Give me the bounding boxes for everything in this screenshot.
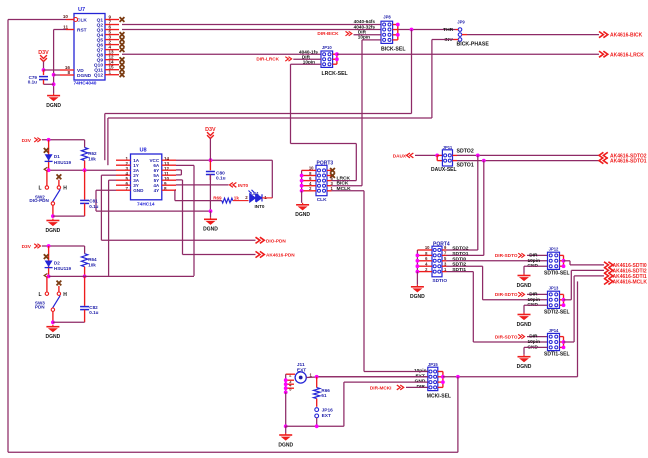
junction DAUX [435,154,439,158]
power D3V (U8) [205,127,216,138]
wire JP13 output to chevron [571,269,604,271]
wire U8 3A in [109,179,116,181]
net label DIR-SDTO (input JP12) [495,253,525,258]
header JP11 DAUX-SEL [442,150,452,166]
ground DGND (SW2) [46,219,61,234]
net label DIR-SDTO (input JP14) [495,334,525,339]
PORT4 right pin numbers [444,245,447,272]
JP9 labels [443,19,489,47]
wire DIR-MCKI to JP15 [406,386,428,388]
wire 6Y-5A loop [180,170,182,175]
connector J11 EXT [295,362,306,383]
wire U8 5Y out [176,179,183,181]
power D3V (U7) [38,50,49,61]
wire JP12 output to chevron [570,264,604,266]
junction J11 shield low [284,390,288,394]
wire J11 shield to ground net [285,392,287,426]
svg-text:GND: GND [133,188,144,193]
svg-text:J11: J11 [297,362,305,368]
wire MCLK trunk to JP15 10pin [364,371,428,373]
LED LE1 INT0 [249,190,273,209]
junction PORT3 bus [300,179,304,183]
JP12 labels [544,247,570,277]
JP14 labels [544,328,570,358]
wire SDTO2 down to PORT4 [477,155,479,250]
svg-text:U7: U7 [78,7,85,13]
JP11 labels [431,145,474,173]
ground DGND (U7) [46,94,61,109]
svg-text:HSU119: HSU119 [54,160,72,165]
header PORT3 [316,165,327,195]
wire JP12 GND drop [523,266,525,273]
net label DIR-SDTO (input JP13) [495,292,525,297]
ground DGND (U8) [203,217,218,232]
svg-text:JP8: JP8 [383,15,391,20]
JP13 right stubs and bus [560,294,564,305]
svg-text:D3V: D3V [22,138,32,144]
wire ground chain vertical [343,382,345,426]
wire LED anode drop [271,160,273,198]
wire C79 to ground node [44,83,54,85]
svg-text:HSU119: HSU119 [54,266,72,271]
svg-text:SDTO2: SDTO2 [457,148,474,154]
junction SW3 node b [83,275,87,279]
wire J11 EXT to JP15 [317,376,428,378]
JP12 row labels DIR 10pin GND [527,252,540,269]
IC U7 74HC4040 body [74,7,106,87]
wire JP14 GND row [524,346,548,348]
svg-text:RST: RST [77,28,87,34]
U7 pin names [77,17,103,79]
wire U8 VCC rail [176,159,272,161]
jumper JP16 EXT [315,408,333,419]
svg-text:AK4616-MCLK: AK4616-MCLK [613,279,648,285]
wire 2Y vertical to DIO-PDN [100,175,102,240]
switch SW3 PDN [35,276,67,322]
header JP13 SDTI2-SEL [548,291,560,308]
junction SDTO1 tap [482,159,486,163]
svg-text:R69: R69 [213,196,222,201]
wire U8 6A in [176,164,194,166]
JP14 right stubs and bus [560,337,564,348]
junction JP15 out a [441,375,445,379]
net label D3V (SW3) [22,244,41,250]
svg-text:DGND: DGND [46,334,61,340]
JP13 row labels DIR 10pin GND [527,291,540,308]
svg-text:PORT3: PORT3 [317,161,334,167]
jumper JP9 BICK-PHASE pins [458,28,462,42]
wire D3V down to VCC node [209,139,211,161]
wire to DGND (J11) [285,426,287,433]
wire 4040-1fs (U7 Q8 to JP10) [122,53,321,55]
svg-text:D1: D1 [54,154,60,159]
svg-text:10pin: 10pin [527,339,540,345]
wire SDTI1 vertical [472,272,474,342]
svg-text:10k: 10k [88,156,96,161]
wire JP12 output [564,260,571,262]
junction PORT4 bus [416,270,420,274]
wire AK4616-PDN output [183,254,256,256]
svg-text:DGND: DGND [517,364,532,370]
svg-text:LRCK-SEL: LRCK-SEL [322,71,349,77]
capacitor C82 0.1u [80,276,99,322]
U7 left pin numbers 10 11 16 8 [63,14,71,75]
wire DIR-LRCK to JP10 [293,58,321,60]
U8 pin numbers [125,156,169,191]
diode D2 HSU119 [44,246,72,278]
svg-text:DGND: DGND [77,73,92,79]
svg-text:MCKI-SEL: MCKI-SEL [427,394,451,400]
svg-text:INT0: INT0 [255,204,265,209]
wire U8 GND vertical [95,190,97,211]
JP13 labels [544,286,570,316]
svg-text:10pin: 10pin [527,297,540,303]
svg-text:1k: 1k [234,196,240,201]
wire SW2 to U8 2A [49,169,116,171]
wire PORT4 SDTO2 row [447,249,478,251]
junction ground rail [209,209,213,213]
wire SDTI1 to JP14 [473,341,547,343]
header JP8 BICK-SEL [381,21,393,43]
svg-text:L: L [38,186,41,192]
junction D3V (SW2) [47,138,51,142]
wire PORT4 SDTI0 to JP12 [447,260,548,262]
wire INV to JP9 [432,39,454,41]
wire MCKI loop down [457,377,459,453]
JP15 row labels 10pin EXT GND DIR [414,368,427,390]
U7 right pin stubs [105,20,119,75]
junction PORT3 bus [300,184,304,188]
svg-text:DAUX: DAUX [393,153,407,158]
junction JP12 out b [562,264,566,268]
wire left vertical trunk (MCKI loop) [7,20,9,453]
junction VCC/D3V [209,158,213,162]
svg-text:0.1u: 0.1u [89,310,98,315]
U7 CLK input bubble [74,18,78,22]
wire JP13 output vertical [570,270,572,299]
JP10 labels [322,45,349,77]
wire PORT4 SDTI2 row [447,265,483,267]
ground DGND (JP12) [517,274,532,289]
wire DAUX to JP11 [415,154,437,156]
svg-text:DGND: DGND [295,212,310,218]
wire BICK to U8 1A (line1) [105,113,412,115]
net label DIR-BICK [317,31,351,36]
net label DAUX (input) [393,153,414,158]
net label DIR-MCKI (input) [370,385,404,390]
wire SDTI2 vertical [482,266,484,300]
wire JP13 GND row [524,304,548,306]
svg-text:10k: 10k [88,263,96,268]
svg-text:THR: THR [443,27,454,33]
wire to U7 VD pin [44,69,61,71]
wire 6Y out [176,169,181,171]
junction JP8 bus a [396,23,400,27]
wire SW3 ground link [53,321,85,323]
no-connect PORT3 pin9 [330,168,335,173]
wire DIR-SDTO to JP13 [527,293,548,295]
JP15 right stubs and bus [438,372,443,388]
junction JP10 bus a [335,52,339,56]
wire U7 CLK to left trunk [8,19,66,21]
svg-text:DIO-PDN: DIO-PDN [266,238,286,243]
wire LRCK down to PORT3 [355,144,357,181]
switch SW2 DIO-PDN [29,170,67,216]
wire JP12 output vertical [569,261,571,265]
wire PORT3 BICK to trunk [332,185,363,187]
wire LRCK 10pin vertical [290,64,292,143]
JP14 row labels DIR 10pin GND [527,334,540,351]
net label DIO-PDN (output) [256,237,287,243]
svg-text:CLK: CLK [317,197,327,203]
junction PORT3 bus [300,174,304,178]
wire D3V rail (SW3) [42,245,85,247]
wire 4040-64fs (U7 Q2 to JP8) [122,24,381,26]
wire 4Y drop to R69 [174,190,176,201]
svg-text:DGND: DGND [203,227,218,233]
PORT4 left stubs and bus [417,250,432,272]
JP10 right stubs and bus [333,54,337,64]
U7 left pin stubs [60,20,74,76]
svg-text:DGND: DGND [517,322,532,328]
junction SW2 ground node [51,214,55,218]
wire U8 4Y stub [175,189,176,191]
PORT3 row labels LRCK BICK MCLK [337,176,352,192]
JP8 row labels 4040-64fs 4040-32fs DIR 10pin [354,19,376,39]
wire 3A vertical to SW3 [108,180,110,276]
junction PORT4 bus [416,264,420,268]
header JP15 MCKI-SEL [428,367,438,390]
JP8 labels [381,15,406,53]
net label D3V (SW2) [22,138,41,144]
svg-text:DIR-SDTO: DIR-SDTO [495,334,518,339]
wire JP16 to ground node [316,418,318,427]
junction J11 shield [284,378,288,382]
junction SW3 node a [47,275,51,279]
PORT3 left stubs and bus [302,170,316,190]
svg-text:L: L [38,292,41,298]
capacitor C80 [206,160,226,181]
svg-text:JP11: JP11 [443,145,453,150]
wire 5Y vertical to AK4616-PDN [182,180,184,255]
svg-text:D3V: D3V [205,127,216,133]
wire U7 RST [54,29,66,31]
capacitor C81 0.1u [80,170,99,216]
resistor R64 10k [81,246,97,276]
diode D1 HSU119 [44,140,72,172]
svg-text:Q12: Q12 [94,73,103,79]
header JP12 SDTI0-SEL [548,252,560,269]
junction J11 ground node [284,424,288,428]
U8 pin stubs [116,160,176,190]
junction PORT4 bus [416,259,420,263]
junction JP14 out a [562,340,566,344]
PORT4 left pin numbers [425,245,430,272]
header PORT4 [432,246,442,277]
U7 right pin numbers [109,14,115,74]
wire loop to 5A [176,174,181,176]
junction JP14 out b [562,346,566,350]
wire JP10 10pin row [291,63,322,65]
wire INV vertical [431,40,433,119]
svg-text:JP15: JP15 [428,362,438,367]
junction JP12 out a [562,259,566,263]
wire line1 drop to 1A [104,114,106,161]
svg-text:INT0: INT0 [238,183,249,188]
svg-text:BICK-PHASE: BICK-PHASE [457,42,490,48]
svg-text:JP10: JP10 [322,45,332,50]
ground DGND (J11) [278,433,293,448]
wire EXT row [317,376,428,378]
svg-text:EXT: EXT [322,413,331,419]
wire SDTO1 to AK4616-SDTO1 [457,160,599,162]
svg-text:U8: U8 [140,147,147,153]
header JP10 LRCK-SEL [321,51,333,67]
wire DIR-SDTO to JP14 [527,336,548,338]
wire MCLK vertical trunk to JP15 [363,191,365,372]
svg-text:D2: D2 [54,260,60,265]
JP11 right stubs [453,155,458,160]
svg-text:DGND: DGND [278,442,293,448]
junction JP15 out b [441,380,445,384]
wire PORT3 LRCK [332,180,357,182]
IC U8 74HC14 body [131,147,162,207]
junction PORT3 bus [300,189,304,193]
U8 pin names [133,158,160,193]
svg-text:SDTO1: SDTO1 [457,163,474,169]
svg-text:DGND: DGND [46,103,61,109]
svg-text:0.1u: 0.1u [89,204,98,209]
svg-text:DIR-LRCK: DIR-LRCK [256,57,279,62]
wire JP13 output [564,299,572,301]
junction JP13 out b [562,303,566,307]
J11 shield stubs and bus [286,374,295,392]
ground DGND (PORT4) [410,285,425,300]
wire SDTO2 to AK4616-SDTO2 [457,154,599,156]
header JP14 SDTI1-SEL [548,333,560,350]
svg-text:DGND: DGND [410,294,425,300]
resistor R66 51 [314,377,331,407]
JP10 row labels 4040-1fs DIR 10pin [299,49,318,64]
JP9 pin stubs [454,30,468,40]
net labels AK4616-SDTI bundle [604,262,647,286]
wire J11 center pin [306,376,316,379]
ground DGND (PORT3) [295,203,310,218]
svg-text:AK4616-PDN: AK4616-PDN [266,253,295,258]
wire BICK-PHASE out to AK4616-BICK [467,34,599,36]
U7 no-connect X marks [120,17,125,77]
junction SDTO2 tap [476,154,480,158]
svg-text:51: 51 [321,393,327,398]
net label DIR-LRCK [256,57,291,62]
wire U8 2Y out [101,174,116,176]
net label AK4616-SDTO1 [599,158,647,165]
wire U8 1Y to INV (line2) [108,117,432,119]
svg-text:JP16: JP16 [322,408,334,414]
svg-text:JP12: JP12 [549,247,559,252]
svg-text:DGND: DGND [517,283,532,289]
svg-text:JP14: JP14 [549,328,559,333]
junction C79 bottom [52,82,56,86]
wire PORT4 SDTI1 row [447,271,474,273]
svg-text:PDN: PDN [35,304,45,309]
wire 4Y to R69 [175,200,222,202]
PORT3 labels [317,161,334,203]
wire INT0 to U8 4A [176,184,229,186]
net label INT0 (input) [230,182,249,187]
svg-text:AK4616-BICK: AK4616-BICK [610,33,643,39]
wire BICK to JP9 THR [398,29,456,31]
svg-text:DGND: DGND [46,228,61,234]
junction JP16 ground [315,424,319,428]
wire JP14 output to chevron [574,275,604,277]
junction J11 shield [284,386,288,390]
svg-text:DIR-MCKI: DIR-MCKI [370,385,392,390]
junction RST/DGND pin [52,73,56,77]
PORT4 right stubs [442,250,447,272]
svg-text:DIR-SDTO: DIR-SDTO [495,292,518,297]
svg-text:SDTIO: SDTIO [432,278,447,284]
wire C80 to ground rail [209,175,211,212]
wire 4040-32fs (U7 Q3 to JP8) [122,29,381,31]
PORT4 labels [432,242,449,284]
svg-text:BICK-SEL: BICK-SEL [381,46,406,52]
wire D3V to VD rail [43,62,45,71]
svg-text:4Y: 4Y [154,188,160,193]
JP12 right stubs and bus [560,255,564,266]
junction J11/R66 [315,375,319,379]
svg-text:JP13: JP13 [549,286,559,291]
svg-text:74HC4040: 74HC4040 [74,81,97,87]
svg-text:DIO-PDN: DIO-PDN [29,198,49,203]
wire U8 GND out [96,189,116,191]
wire PORT4 to ground [416,272,418,285]
svg-text:PORT4: PORT4 [433,242,450,248]
wire PORT3 MCLK [332,190,365,192]
J11 pin numbers [289,372,312,391]
svg-text:11: 11 [63,24,68,29]
ground DGND (SW3) [46,325,61,340]
svg-text:D3V: D3V [38,50,49,56]
junction SW2 node a [47,168,51,172]
wire 10pin/BICK vertical trunk [361,40,363,186]
ground DGND (JP14) [517,355,532,370]
wire to U7 DGND pin [54,74,60,76]
JP15 labels [427,362,451,399]
net label AK4616-PDN (output) [256,251,296,257]
wire JP8 10pin row [362,39,381,41]
wire PORT3 to ground [301,191,303,203]
no-connect PORT3 pin7 [330,173,335,178]
wire PORT4 SDTO1 row [447,254,484,256]
junction JP13 out a [562,298,566,302]
svg-text:74HC14: 74HC14 [137,201,155,207]
wire ground chain to JP15 GND [344,381,428,383]
wire DIR-SDTO to JP12 [527,254,548,256]
svg-text:SDTI0-SEL: SDTI0-SEL [544,271,570,277]
svg-text:SDTI2-SEL: SDTI2-SEL [544,310,570,316]
junction VD/C79 [42,68,46,72]
svg-text:AK4616-SDTO1: AK4616-SDTO1 [610,159,647,165]
PORT3 right pin numbers [331,176,334,191]
junction BICK tap [410,28,414,32]
junction SW2 node b [83,168,87,172]
junction PORT4 bus [416,254,420,258]
junction JP8 bus b [396,33,400,37]
JP8 right stubs and bus [393,25,398,40]
wire SW2 ground link [53,215,85,217]
svg-text:0.1u: 0.1u [216,175,226,181]
